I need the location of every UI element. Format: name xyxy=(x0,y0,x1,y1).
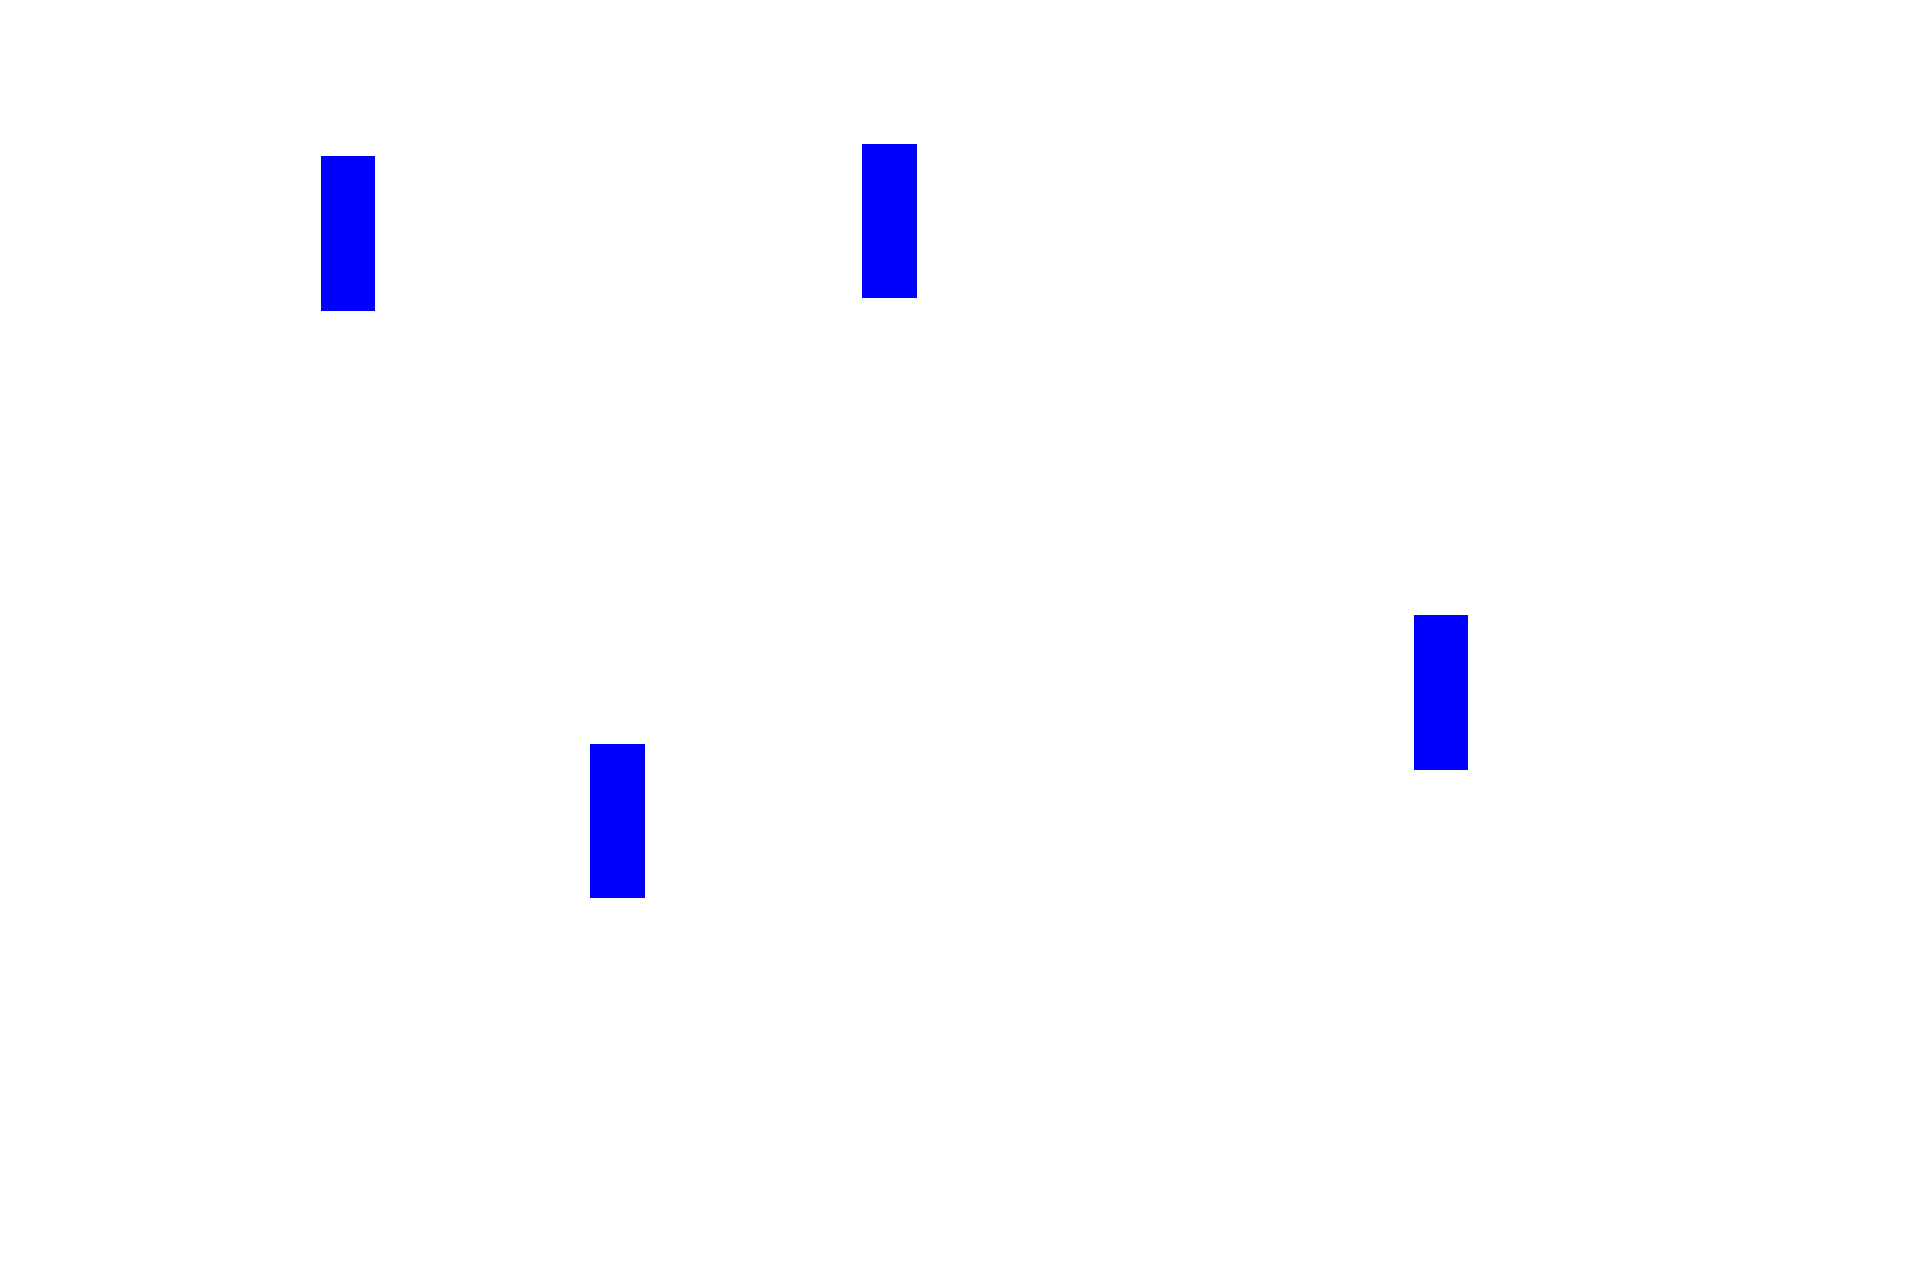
blue rectangle 1 xyxy=(321,156,375,311)
blue rectangle 3 xyxy=(590,744,645,898)
blue rectangle 2 xyxy=(862,144,917,298)
blue rectangle 4 xyxy=(1414,615,1468,770)
